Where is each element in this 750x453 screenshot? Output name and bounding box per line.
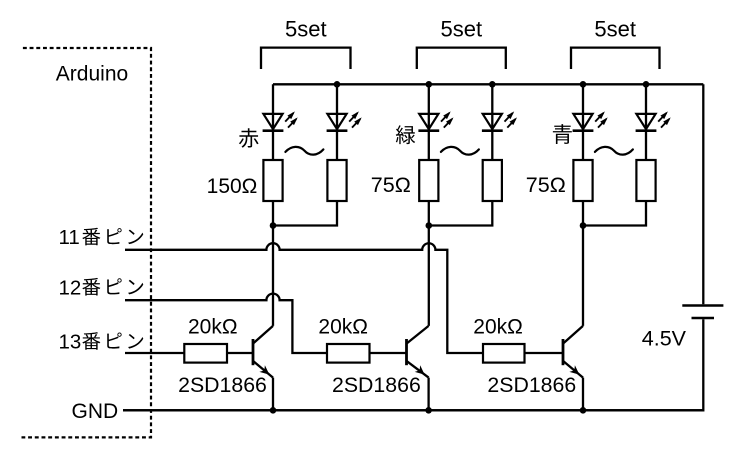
svg-text:12: 12: [59, 276, 82, 299]
resistor group 1 left: [263, 160, 282, 201]
junction dot rail 2a: [426, 81, 433, 88]
svg-text:20kΩ: 20kΩ: [318, 316, 368, 339]
svg-text:150Ω: 150Ω: [207, 175, 258, 198]
junction dot rail 1b: [334, 81, 341, 88]
svg-text:75Ω: 75Ω: [526, 173, 566, 197]
label 青: [553, 124, 572, 144]
wire pin 12: [125, 294, 327, 353]
Arduino dashed box (open on left): [22, 48, 152, 437]
resistor group 3 right: [636, 160, 655, 201]
label 赤: [239, 128, 259, 147]
junction dot GND Q2: [425, 407, 432, 414]
wire group 3 bottom join: [583, 201, 646, 226]
LED D6: [636, 114, 655, 129]
LED D3: [419, 114, 438, 129]
wire group 2 bottom join: [429, 201, 493, 226]
wire group 1 bottom join: [273, 201, 337, 226]
wire group 3 resistor 3a drop: [582, 201, 584, 226]
wire LED column 1a: [272, 84, 274, 160]
ellipsis tilde group 2: [441, 147, 479, 155]
wire LED column 2a: [428, 84, 430, 160]
battery BT1: [682, 306, 723, 319]
svg-text:20kΩ: 20kΩ: [473, 316, 523, 339]
resistor 20k R3: [483, 344, 525, 363]
junction dot group 2 bottom: [426, 222, 433, 229]
bracket 5set group 2: [417, 48, 506, 69]
junction dot group 1 bottom: [270, 222, 277, 229]
wire LED column 2b: [491, 84, 493, 160]
svg-text:11: 11: [59, 226, 80, 249]
svg-text:GND: GND: [72, 400, 119, 423]
wire top supply rail: [273, 83, 703, 85]
wire pin 11: [125, 243, 483, 353]
bracket 5set group 3: [571, 48, 660, 69]
label 緑: [396, 125, 415, 144]
junction dot group 3 bottom: [580, 222, 587, 229]
wire base R1 to Q1: [227, 352, 253, 354]
LED D2: [327, 114, 346, 129]
wire emitter drop Q3: [582, 378, 584, 411]
resistor group 3 left: [573, 160, 592, 201]
wire base R2 to Q2: [370, 352, 407, 354]
wire emitter drop Q1: [272, 378, 274, 411]
LED D4: [483, 114, 502, 129]
junction dot GND Q1: [270, 407, 277, 414]
svg-text:Arduino: Arduino: [56, 63, 128, 86]
svg-text:20kΩ: 20kΩ: [188, 316, 238, 339]
junction dot GND Q3: [580, 407, 587, 414]
transistor Q3 2SD1866: [563, 326, 583, 378]
svg-text:5set: 5set: [441, 17, 483, 42]
svg-text:2SD1866: 2SD1866: [332, 373, 421, 397]
wire group 1 resistor 1a drop: [272, 201, 274, 226]
wire battery negative feed: [123, 319, 703, 410]
wire collector drop group 1: [272, 226, 274, 326]
svg-text:2SD1866: 2SD1866: [178, 373, 267, 397]
wire base R3 to Q3: [525, 352, 564, 354]
bracket 5set group 1: [261, 48, 351, 69]
wire group 2 resistor 2a drop: [428, 201, 430, 226]
svg-text:75Ω: 75Ω: [371, 173, 411, 197]
resistor group 2 left: [419, 160, 438, 201]
wire emitter drop Q2: [427, 378, 429, 411]
wire battery positive feed: [702, 84, 704, 304]
resistor group 2 right: [483, 160, 502, 201]
transistor Q2 2SD1866: [407, 326, 429, 378]
wire collector drop group 3: [582, 226, 584, 326]
wire GND rail: [123, 409, 703, 411]
svg-text:5set: 5set: [285, 17, 327, 42]
junction dot rail 3b: [643, 81, 650, 88]
ellipsis tilde group 3: [595, 147, 633, 155]
wire pin 13: [125, 352, 184, 354]
svg-text:13: 13: [59, 331, 82, 354]
junction dot rail 3a: [580, 81, 587, 88]
wire LED column 3b: [645, 84, 647, 160]
wire LED column 3a: [582, 84, 584, 160]
resistor 20k R2: [327, 344, 370, 363]
wire LED column 1b: [336, 84, 338, 160]
LED D1: [263, 114, 282, 129]
LED D5: [573, 114, 592, 129]
svg-text:4.5V: 4.5V: [642, 327, 687, 351]
svg-text:2SD1866: 2SD1866: [487, 373, 576, 397]
resistor group 1 right: [327, 160, 346, 201]
transistor Q1 2SD1866: [253, 326, 273, 378]
resistor 20k R1: [184, 344, 227, 363]
wire collector drop group 2: [428, 226, 430, 326]
junction dot rail 2b: [489, 81, 496, 88]
svg-text:5set: 5set: [594, 17, 636, 42]
ellipsis tilde group 1: [285, 147, 323, 155]
